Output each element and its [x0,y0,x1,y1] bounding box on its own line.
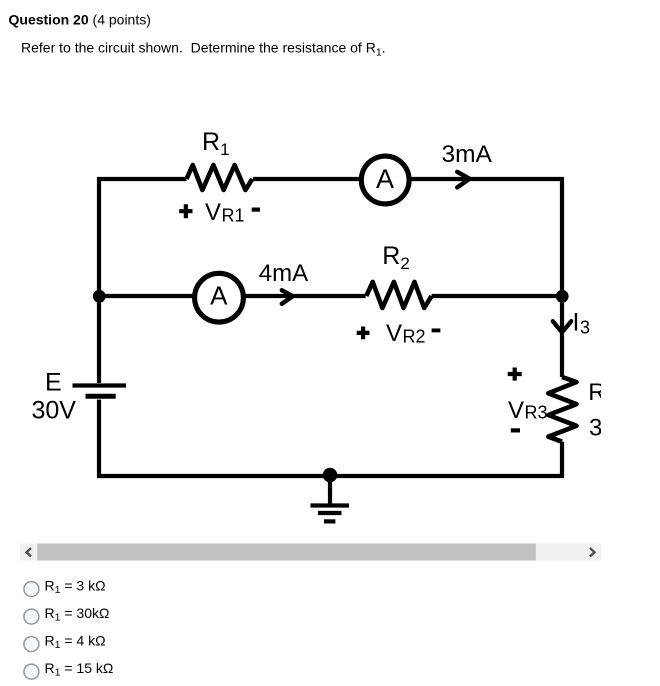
wire R2 to node B [432,294,562,298]
resistor R3 [548,377,576,442]
svg-text:E: E [45,369,62,397]
scrollbar right button arrow [590,548,595,556]
scrollbar left button arrow [27,548,32,556]
svg-text:R2: R2 [382,242,410,273]
svg-text:R1 = 3 kΩ: R1 = 3 kΩ [45,577,106,596]
svg-text:I3: I3 [573,309,590,338]
resistor R2 [366,282,431,308]
ammeter A2 [195,273,244,322]
ground node [323,468,338,483]
scrollbar track [20,544,601,561]
svg-text:Question 20 (4 points): Question 20 (4 points) [9,12,151,28]
wire A2 to R2 [244,294,366,298]
svg-text:R1 = 30kΩ: R1 = 30kΩ [45,605,110,624]
polarity + VR2 - [357,327,370,340]
ground bar 2 [318,511,342,515]
svg-text:4mA: 4mA [259,260,308,287]
svg-text:R3: R3 [525,403,548,423]
current arrow I3 [553,321,571,332]
svg-text:3kΩ: 3kΩ [589,415,632,442]
svg-text:R1 = 15 kΩ: R1 = 15 kΩ [45,660,114,679]
polarity + VR1 - [179,204,192,218]
ammeter A1 [361,156,409,204]
option 2 radio [24,609,39,624]
ground bar 3 [324,519,335,523]
polarity - for R3 [511,428,520,432]
svg-text:A: A [376,164,394,194]
battery E source [73,383,127,387]
node B (right, middle rail) [556,290,569,303]
svg-text:R1: R1 [222,206,245,226]
svg-text:V: V [508,397,524,424]
svg-text:Refer to the circuit shown. D: Refer to the circuit shown. Determine th… [21,40,386,59]
svg-text:R1 = 4 kΩ: R1 = 4 kΩ [45,632,106,651]
svg-text:R2: R2 [403,327,426,347]
svg-text:R1: R1 [202,128,230,159]
svg-text:A: A [210,281,228,311]
wire R3 to bottom-right corner [560,442,564,476]
resistor R1 [187,165,253,190]
option 4 radio [24,664,39,679]
option 3 radio [24,637,39,652]
wire node A to ammeter A2 [99,294,195,298]
svg-text:R3: R3 [588,379,615,409]
wire R1 to ammeter A1 [253,177,361,181]
wire battery to bottom rail [97,400,101,476]
ground stem [328,475,332,506]
bottom wire [97,474,564,478]
wire node B down to R3 [560,296,564,377]
svg-text:30V: 30V [32,397,77,425]
svg-text:3mA: 3mA [442,141,493,168]
current arrow 3mA [457,172,469,188]
wire A1 to top-right corner, down to node B [410,179,563,294]
polarity + for R3 [508,368,522,381]
svg-text:V: V [386,320,402,347]
wire top-left: node A to R1 [99,179,187,383]
ground bar 1 [311,503,350,507]
scrollbar thumb [37,544,536,561]
current arrow 4mA [282,290,293,304]
node A (left, middle rail) [93,290,106,303]
svg-text:V: V [205,199,221,226]
option 1 radio [24,582,39,597]
